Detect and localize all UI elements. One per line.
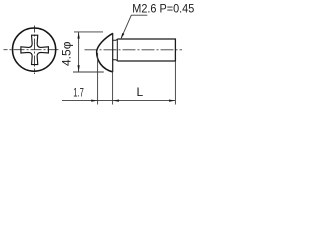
node dim 4.5 top extension line: [74, 31, 103, 33]
node thread start line: [116, 39, 118, 61]
node ext line shaft end: [174, 61, 176, 105]
node ext line head apex: [97, 53, 99, 105]
node dim 4.5 arrow up: [77, 32, 79, 39]
node dim 4.5 bottom extension line: [73, 71, 104, 73]
node screw head dome side view: [97, 33, 113, 72]
node bottom dimension line: [62, 100, 175, 102]
node front-view vertical centerline: [34, 26, 36, 75]
node shaft outline: [117, 39, 175, 61]
node head base line: [112, 33, 114, 72]
svg-text:1.7: 1.7: [73, 85, 84, 99]
node dim L arrow left-pointing: [113, 100, 119, 102]
svg-text:4.5φ: 4.5φ: [60, 41, 74, 66]
node dim L arrow right-pointing: [169, 100, 175, 102]
node dim 1.7 arrow right-pointing: [91, 100, 97, 102]
node ext line head base: [112, 72, 114, 105]
svg-text:M2.6 P=0.45: M2.6 P=0.45: [132, 1, 194, 15]
node leader arrowhead: [121, 33, 125, 39]
node leader line M2.6: [121, 15, 147, 38]
node dim 4.5 arrow down: [77, 65, 79, 72]
node neck / thread runout bottom: [113, 60, 118, 61]
node dim 4.5 dimension line: [78, 32, 80, 72]
node phillips cross recess: [21, 35, 49, 64]
node screw head front view circle: [12, 28, 55, 71]
node front-view horizontal centerline: [4, 49, 60, 51]
node neck / thread runout top: [113, 39, 118, 40]
svg-text:L: L: [137, 85, 144, 99]
node side-view centerline: [85, 49, 183, 51]
